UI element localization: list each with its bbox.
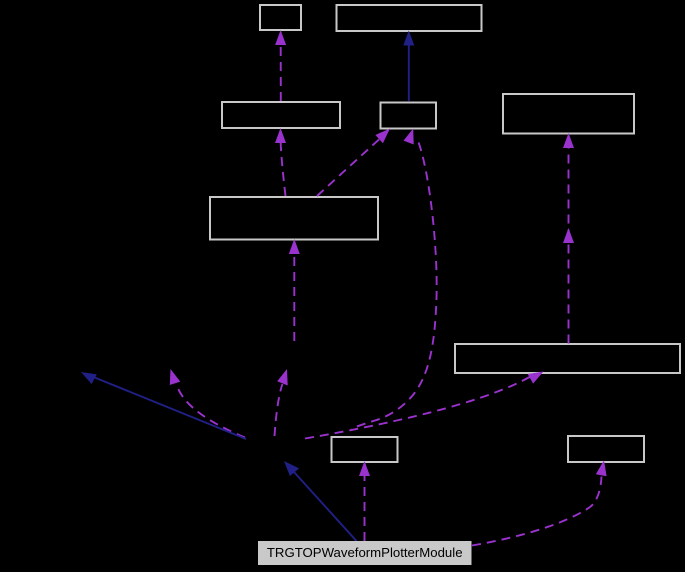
svg-text:TRGTOPWaveformPlotterModule: TRGTOPWaveformPlotterModule	[267, 545, 463, 560]
arrowhead purple diagonal into row2 mid box	[375, 129, 390, 144]
arrowhead blue hidden far left	[81, 372, 97, 384]
arrowhead purple into row3 box	[289, 239, 300, 254]
wire blue row2mid to row1wide	[408, 44, 410, 101]
arrowhead purple hidden mid	[277, 369, 288, 386]
wire dashed row3 to row2left	[281, 142, 286, 196]
wire blue main to hub	[294, 472, 357, 541]
arrowhead purple hidden left	[170, 369, 181, 385]
node box row4 right long	[455, 344, 680, 373]
node box row1 left	[260, 5, 301, 30]
wire dashed main to row5 small	[364, 475, 366, 541]
wire dashed row2left to row1left	[280, 44, 282, 101]
wire dashed main to row5 right	[472, 477, 602, 546]
arrowhead purple into row5 right box	[596, 460, 607, 476]
wire dashed row4long to row2right	[568, 148, 570, 344]
node box row2 right	[503, 94, 634, 134]
node box row2 left	[222, 102, 340, 128]
arrowhead purple curve into row2 mid box	[404, 129, 414, 145]
wire dashed long right curve to row2mid	[351, 143, 437, 429]
arrowhead blue into row1 wide box	[403, 31, 414, 46]
wire blue hub to hidden node far left	[95, 378, 246, 439]
wire dashed hidden node to row3 box	[293, 253, 295, 341]
node box row5 small	[332, 437, 398, 462]
arrowhead blue into hub	[284, 461, 299, 476]
main node TRGTOPWaveformPlotterModule	[258, 541, 472, 565]
arrowhead purple into row1 left box	[275, 30, 286, 45]
wire dashed hub to hidden node mid	[275, 384, 283, 436]
wire dashed hub to hidden node left	[177, 385, 246, 438]
arrowhead purple mid overlap	[563, 228, 574, 243]
arrowhead purple into row4 long box	[528, 372, 544, 384]
node box row3	[210, 197, 378, 240]
node box row2 mid	[381, 103, 437, 129]
arrowhead purple into row2 left box	[275, 128, 286, 143]
wire dashed diagonal row3 to row2mid	[317, 139, 380, 196]
wire dashed hub to row4long	[305, 377, 530, 439]
arrowhead purple into row2 right box	[563, 133, 574, 148]
node box row5 right	[568, 436, 644, 462]
arrowhead purple into row5 small box	[359, 461, 370, 476]
node box row1 wide	[337, 5, 482, 31]
